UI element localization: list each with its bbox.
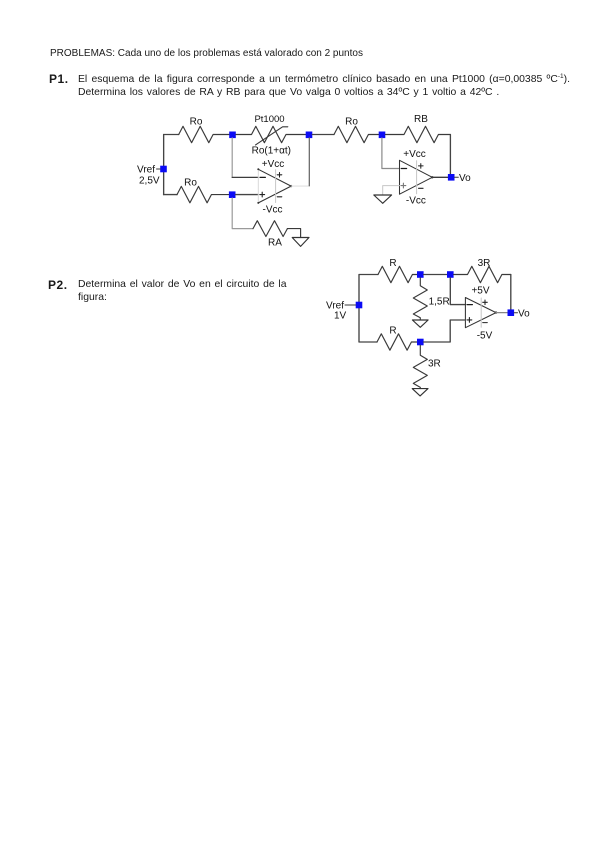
wire: top rail lead into Ro1	[164, 134, 179, 136]
op-amp U1 plus input marker	[260, 192, 265, 197]
op-amp U2 output dot	[431, 176, 433, 178]
wire: 3R1 down to output node	[510, 275, 512, 313]
wire: node A down to op1 inverting input	[231, 138, 233, 178]
label Vref P1 with tick	[157, 168, 161, 170]
op-amp U1 triangle	[258, 169, 291, 203]
wire: node F to node G	[424, 274, 447, 276]
svg-text:Ro(1+αt): Ro(1+αt)	[252, 146, 291, 157]
ground G4 triangle (under 3R2)	[412, 389, 428, 396]
node E (output node Vo P1)	[448, 174, 455, 181]
ground G3 triangle (under 1,5R)	[412, 320, 428, 327]
wire: into op1 inverting input	[232, 176, 258, 178]
resistor RA	[253, 221, 287, 237]
label Vo P1 with tick	[455, 176, 459, 178]
svg-text:-5V: -5V	[477, 331, 493, 342]
wire: node C down to op2 inverting input	[382, 138, 400, 169]
resistor 1,5R vertical	[413, 278, 427, 320]
resistor Ro2 (top middle)	[334, 126, 379, 142]
wire: node I to op3 non-inverting input	[424, 320, 466, 342]
svg-text:+Vcc: +Vcc	[262, 159, 285, 170]
op-amp U1 output dot	[290, 185, 292, 187]
op-amp U3 plus input marker	[467, 318, 472, 323]
problem P1 text	[78, 73, 570, 99]
svg-text:Ro: Ro	[184, 177, 197, 188]
op-amp U3 plus power marker	[483, 300, 488, 305]
op-amp U2 power rail line	[416, 161, 418, 194]
wire: P2 left rail	[359, 275, 378, 343]
node Vref P2	[356, 302, 363, 309]
resistor Pt1000 arrow	[256, 127, 288, 145]
op-amp U1 minus input marker	[260, 176, 265, 178]
svg-text:3R: 3R	[428, 359, 441, 370]
label Vo P2 with tick	[514, 312, 517, 314]
resistor R2 (P2 bottom)	[377, 334, 420, 350]
ground G1 (RA ground) stem	[287, 229, 300, 238]
resistor R1 (P2 top)	[378, 266, 420, 282]
op-amp U3 power rail line	[480, 298, 482, 327]
resistor 3R1 (P2 top right)	[454, 266, 511, 282]
svg-text:Ro: Ro	[190, 116, 203, 127]
op-amp U2 minus power marker	[419, 187, 424, 189]
resistor RB	[385, 126, 450, 142]
svg-text:+Vcc: +Vcc	[403, 149, 426, 160]
node C (junction Ro2/RB/op2 minus)	[379, 132, 386, 139]
node I (junction R2/3R2/op3 plus)	[417, 339, 424, 346]
wire: node G down to op3 inverting input	[450, 278, 465, 305]
wire: node B to Ro2	[312, 134, 334, 136]
svg-text:R: R	[389, 326, 396, 337]
resistor Ro3 (bottom)	[177, 186, 233, 202]
problem P1 number	[49, 73, 69, 86]
op-amp U2 plus input marker	[401, 183, 406, 188]
op-amp U2 triangle	[400, 160, 433, 194]
op-amp U3 output dot	[495, 311, 497, 313]
ground G2 triangle (op2 plus input)	[374, 195, 392, 203]
wire: left rail from top branch to bottom branch	[163, 135, 165, 195]
node D (junction Ro3/op1 plus/RA)	[229, 191, 236, 198]
resistor Pt1000 variable, body	[236, 126, 306, 142]
problem P2 number	[48, 279, 68, 292]
resistor 3R2 vertical	[413, 345, 427, 388]
svg-text:Vref: Vref	[137, 164, 155, 175]
svg-text:-Vcc: -Vcc	[406, 196, 426, 207]
wire: op3 output stub	[496, 312, 508, 314]
svg-text:+5V: +5V	[471, 286, 489, 297]
node A (junction Ro1/Pt1000/op1 minus)	[229, 132, 236, 139]
wire: RB right side down to output node	[449, 135, 451, 178]
node G (junction top wire/3R1/op3 minus)	[447, 271, 454, 278]
svg-text:1,5R: 1,5R	[429, 296, 450, 307]
node F (junction R1/1,5R/top wire)	[417, 271, 424, 278]
wire: feedback from op1 output up to node B	[308, 138, 310, 186]
svg-text:Vo: Vo	[459, 173, 471, 184]
resistor Ro1 (top left)	[179, 126, 233, 142]
op-amp U2 minus input marker	[401, 168, 406, 170]
op-amp U3 minus input marker	[467, 304, 472, 306]
node Vref P1	[160, 166, 167, 173]
wire: node D to op1 non-inverting input	[236, 194, 259, 196]
svg-text:3R: 3R	[478, 258, 491, 269]
node H (output node Vo P2)	[508, 309, 515, 316]
svg-text:Ro: Ro	[345, 116, 358, 127]
wire: bottom rail lead into Ro3	[164, 194, 177, 196]
svg-text:2,5V: 2,5V	[139, 175, 160, 186]
svg-text:Vo: Vo	[518, 308, 530, 319]
op-amp U2 plus power marker	[419, 164, 424, 169]
svg-text:RA: RA	[268, 238, 282, 249]
op-amp U1 minus power marker	[277, 196, 282, 198]
svg-text:RB: RB	[414, 114, 428, 125]
node B (junction Pt1000/Ro2/op1 output feedback)	[306, 132, 313, 139]
wire: op1 output stub	[291, 185, 309, 187]
ground G1 triangle	[292, 238, 309, 247]
svg-text:-Vcc: -Vcc	[263, 204, 283, 215]
label Vref P2 with tick	[345, 304, 356, 306]
op-amp U3 triangle	[465, 298, 496, 328]
wire: op2 output stub	[432, 176, 448, 178]
wire: node D down to RA	[232, 198, 253, 229]
header text	[50, 47, 363, 60]
svg-text:R: R	[389, 258, 396, 269]
op-amp U1 plus power marker	[277, 173, 282, 178]
svg-text:1V: 1V	[334, 310, 347, 321]
op-amp U3 minus power marker	[483, 322, 488, 324]
op-amp U1 power rail line	[275, 170, 277, 203]
problem P2 text	[78, 278, 287, 304]
wire: ground stub to op2 non-inverting input	[383, 186, 400, 195]
svg-text:Pt1000: Pt1000	[254, 114, 284, 125]
